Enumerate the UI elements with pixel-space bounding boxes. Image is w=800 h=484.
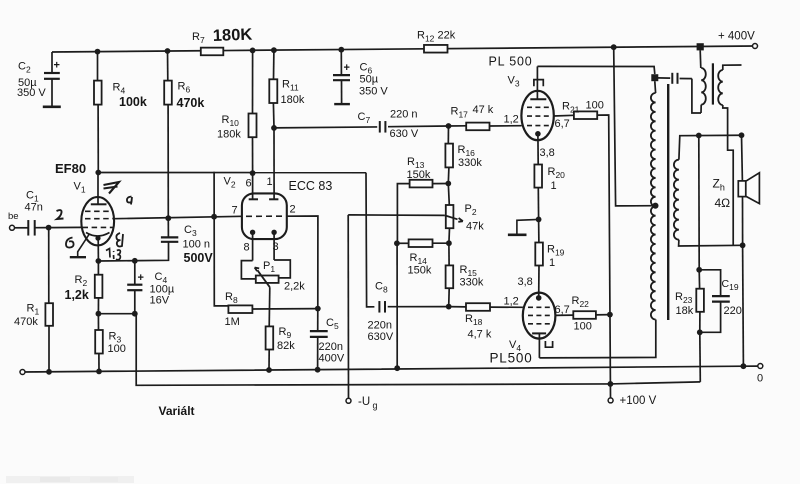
wire secondary bottom: [679, 240, 743, 246]
svg-text:+: +: [54, 60, 60, 72]
tube V3 cathode: [535, 131, 541, 137]
tube V2 cathode pin8: [250, 230, 255, 261]
node primary tap junction: [652, 203, 658, 209]
node V2 pin6 anode junction: [250, 170, 256, 176]
svg-text:4Ω: 4Ω: [715, 196, 731, 210]
label C2 plus: [54, 60, 60, 72]
label V1 pin7 handwritten: [104, 182, 120, 194]
label V3 67: [555, 118, 570, 130]
tube V4 cathode: [536, 295, 542, 301]
capacitor C6: [333, 50, 350, 104]
svg-text:630 V: 630 V: [390, 128, 419, 140]
tube V2 anode pin6: [249, 198, 258, 200]
svg-text:470k: 470k: [14, 316, 38, 328]
svg-text:PL 500: PL 500: [489, 55, 533, 69]
svg-text:3,8: 3,8: [518, 276, 533, 288]
node rail boost square junction: [697, 43, 704, 50]
resistor R22: [573, 311, 596, 319]
label V2 pin6: [246, 178, 252, 190]
svg-text:+100 V: +100 V: [620, 395, 657, 407]
tube V1 EF80 envelope: [81, 197, 114, 245]
tube V1 suppressor to ground: [70, 235, 89, 258]
wire cathode bottom node: [98, 313, 136, 315]
potentiometer P2: [446, 184, 454, 244]
svg-text:630V: 630V: [368, 331, 394, 343]
wire anode drop through to R8: [214, 172, 228, 306]
svg-text:6,7: 6,7: [555, 118, 570, 130]
label R17: [451, 104, 494, 120]
svg-text:100: 100: [108, 343, 126, 355]
label R8: [225, 291, 240, 328]
label R10: [217, 114, 241, 141]
svg-text:180k: 180k: [217, 129, 241, 141]
label R9: [277, 326, 295, 352]
node C7 junction: [271, 125, 277, 131]
svg-text:220n: 220n: [319, 341, 343, 353]
label C7: [358, 109, 419, 141]
label R12: [417, 30, 456, 44]
terminal 0 right: [758, 364, 763, 369]
label -Ug: [358, 396, 378, 411]
wiper P2: [445, 215, 463, 221]
node R2 bottom junction: [96, 311, 102, 317]
wire grid node down to R1: [48, 228, 50, 304]
label +400V: [718, 31, 755, 43]
node gnd-R3: [96, 369, 102, 375]
svg-text:100: 100: [586, 100, 604, 112]
label R6: [177, 81, 205, 111]
label V2: [224, 176, 236, 190]
resistor R7: [201, 48, 224, 56]
core boost transformer: [712, 63, 714, 104]
label C1: [25, 190, 43, 214]
tube V4 envelope: [523, 293, 556, 339]
svg-text:ECC 83: ECC 83: [289, 179, 333, 193]
label R13: [407, 156, 431, 181]
node C7-P2col junction: [446, 123, 452, 129]
label V2 pin2: [290, 204, 296, 216]
label V2 pin1: [267, 176, 273, 188]
svg-text:100k: 100k: [119, 95, 147, 109]
svg-text:400V: 400V: [319, 353, 345, 365]
resistor R11: [269, 50, 277, 128]
capacitor C5: [310, 309, 328, 370]
resistor R10: [249, 50, 257, 173]
wire R22 to column: [596, 314, 610, 316]
svg-text:1M: 1M: [225, 316, 240, 328]
label C6 plus: [344, 62, 350, 74]
wiper P1: [255, 268, 270, 288]
node rail-B+column junction: [611, 44, 617, 50]
resistor R23: [696, 270, 704, 333]
tube V3 envelope: [521, 91, 553, 140]
label R15: [460, 264, 484, 289]
label V4: [509, 339, 521, 353]
label V1: [74, 181, 86, 195]
label R20: [548, 166, 566, 192]
label C2: [17, 61, 46, 100]
label PL500 bottom: [490, 351, 533, 366]
wire -Ug to P2: [348, 214, 445, 217]
label V2 pin8: [244, 242, 250, 254]
node gnd-C5: [315, 367, 321, 373]
wire C7 left: [274, 126, 377, 129]
terminal ground left: [20, 370, 25, 375]
resistor R8: [228, 305, 317, 313]
label R14: [408, 252, 432, 277]
wire pin6 riser: [252, 173, 254, 199]
node gnd-R1: [46, 369, 52, 375]
wire R17 to V3 grid: [490, 125, 522, 127]
tube V3 top cap: [534, 66, 543, 90]
wire cap right down: [692, 79, 701, 113]
wire sec top to R23: [698, 136, 700, 270]
label V1 pin13 handwritten: [106, 249, 120, 260]
node cathode-C4 junction: [132, 258, 138, 264]
tube V4 bottom cap: [539, 338, 552, 358]
wire anode corner down to C8: [366, 173, 374, 307]
svg-text:8: 8: [244, 242, 250, 254]
resistor R15: [446, 243, 454, 306]
label V4 67: [555, 304, 570, 316]
node sec-R23col junction: [696, 133, 702, 139]
tube V3 g1 dash: [527, 125, 550, 127]
inductor boost right coil: [718, 65, 741, 105]
svg-text:150k: 150k: [407, 169, 431, 181]
resistor R2: [95, 261, 103, 314]
node R22 junction: [607, 312, 613, 318]
node R14-P2col junction: [446, 240, 452, 246]
wire B+ column to tap: [614, 47, 656, 206]
node R23 bottom junction: [697, 329, 703, 335]
label R11: [281, 79, 305, 107]
wire pin3 to P1: [274, 260, 290, 278]
resistor R12: [424, 45, 448, 53]
svg-text:47 k: 47 k: [473, 104, 494, 116]
node speaker bottom junction: [740, 242, 746, 248]
resistor R17: [466, 123, 489, 131]
svg-text:180K: 180K: [213, 26, 253, 45]
label V2 pin7: [232, 205, 238, 217]
label P1 value: [284, 281, 305, 293]
resistor R19: [535, 219, 543, 298]
wire C8 right: [388, 306, 449, 308]
ground cathode bar: [508, 219, 539, 234]
node rail-R6 junction: [165, 48, 171, 54]
terminal +400V: [753, 44, 758, 49]
wire V1 cathode down: [97, 238, 99, 261]
terminal -Ug: [346, 398, 351, 403]
label EF80: [55, 161, 86, 176]
label V1 pin8 handwritten: [116, 233, 123, 247]
resistor R13: [397, 180, 448, 244]
label V4 38: [518, 276, 533, 288]
label ECC83: [289, 179, 333, 193]
resistor R20: [534, 165, 542, 220]
svg-text:1,2: 1,2: [504, 296, 519, 308]
label V1 pin9 handwritten: [127, 197, 132, 205]
tube V4 g1 dash: [528, 306, 551, 308]
resistor R6: [164, 51, 172, 218]
label V4 pin12: [504, 296, 519, 308]
node gnd-speaker: [741, 363, 747, 369]
label R19: [547, 244, 565, 270]
tube V4 g3 dash: [528, 323, 551, 325]
wire pin8 to P1: [241, 261, 255, 279]
tube V1 cathode: [86, 233, 110, 241]
wire input to C1: [15, 227, 29, 229]
svg-text:Variált: Variált: [159, 404, 195, 418]
potentiometer P1: [256, 276, 279, 283]
label P2 value: [466, 221, 484, 233]
capacitor C7: [380, 121, 386, 133]
svg-text:82k: 82k: [277, 340, 295, 352]
label V3 38: [540, 147, 555, 159]
wire V4 screen to R22: [555, 314, 573, 316]
svg-text:220: 220: [724, 305, 742, 317]
tube V2 anode pin1: [269, 198, 278, 200]
label be: [8, 211, 19, 222]
tube V3 anode: [530, 91, 546, 99]
svg-text:1,2k: 1,2k: [65, 288, 89, 302]
svg-text:1: 1: [267, 176, 273, 188]
wire bias column to ground: [396, 243, 398, 368]
wire V4 anode line: [539, 320, 655, 358]
node C4 bottom junction: [132, 311, 138, 317]
wire boost right coil down: [723, 105, 733, 245]
wire V1 anode node right: [95, 170, 366, 176]
node rail-R10 junction: [250, 48, 256, 54]
node rail-C6 junction: [338, 47, 344, 53]
label V1 pin2 handwritten: [57, 210, 64, 219]
tube V1 g2 dash: [85, 218, 114, 220]
node R8-C5 junction: [315, 306, 321, 312]
label Varialt: [159, 404, 195, 418]
label R2: [65, 274, 89, 302]
svg-text:500V: 500V: [184, 251, 214, 265]
inductor boost left coil: [700, 50, 706, 113]
wire secondary top: [679, 135, 742, 159]
svg-text:6: 6: [246, 178, 252, 190]
svg-text:330k: 330k: [460, 277, 484, 289]
label P1: [263, 260, 275, 274]
svg-text:+ 400V: + 400V: [718, 31, 755, 43]
wire to R17: [449, 125, 467, 127]
resistor R4: [94, 52, 102, 173]
tube V2 grid dash: [246, 215, 283, 217]
tube V1 g1 dash: [83, 226, 114, 228]
node screen-anode-drop junction: [211, 214, 217, 220]
svg-text:7: 7: [232, 205, 238, 217]
label R7 value 180K handwritten: [213, 26, 253, 45]
tube V2 cathode pin3: [271, 230, 276, 260]
svg-text:16V: 16V: [150, 295, 170, 307]
label R16: [458, 144, 483, 169]
svg-text:be: be: [8, 211, 19, 222]
resistor R1: [45, 303, 53, 372]
node cathode junction: [96, 258, 102, 264]
wire R21 to screens column: [597, 115, 610, 398]
wire V2 pin2 grid to C5 column: [287, 216, 318, 309]
svg-text:0: 0: [757, 373, 763, 385]
svg-text:2,2k: 2,2k: [284, 281, 305, 293]
tube V3 g2 dash: [527, 115, 550, 117]
wire pin1 riser: [273, 128, 275, 199]
svg-text:330k: 330k: [458, 157, 482, 169]
label C5: [319, 317, 345, 365]
resistor R16: [445, 126, 453, 184]
capacitor C8: [379, 301, 385, 313]
label V1 pin6 handwritten: [66, 238, 74, 248]
label C6: [359, 62, 388, 98]
node C19 branch junction: [696, 267, 702, 273]
speaker Zh: [738, 173, 759, 204]
svg-text:350 V: 350 V: [359, 86, 388, 98]
label R23: [675, 291, 694, 317]
tube V4 g2 dash: [528, 314, 552, 316]
svg-text:-U: -U: [358, 396, 370, 408]
node cathode ground junction: [536, 217, 542, 223]
label R1: [14, 303, 39, 329]
resistor R18: [449, 303, 523, 311]
tube V3 g3 dash: [527, 106, 550, 108]
svg-text:1,2: 1,2: [504, 114, 519, 126]
wire +100V feed from cathode node: [136, 314, 700, 386]
svg-text:1: 1: [549, 257, 555, 269]
svg-text:3: 3: [273, 241, 279, 253]
tube V2 ECC83 envelope: [242, 193, 287, 239]
label R22: [572, 295, 592, 333]
node rail-R11 junction: [271, 47, 277, 53]
label Zh: [713, 177, 731, 211]
node sec-speaker junction: [739, 132, 745, 138]
resistor R21: [574, 111, 597, 119]
svg-text:4,7 k: 4,7 k: [468, 329, 492, 341]
svg-text:18k: 18k: [676, 305, 694, 317]
terminal input be: [10, 225, 15, 230]
capacitor C4: [127, 261, 142, 314]
svg-text:47k: 47k: [466, 221, 484, 233]
capacitor C1: [28, 220, 34, 236]
resistor R14: [394, 239, 449, 247]
svg-text:2: 2: [290, 204, 296, 216]
svg-text:220 n: 220 n: [390, 109, 418, 121]
node gnd-R1314col: [394, 365, 400, 371]
tube V1 g3 dash: [85, 210, 112, 212]
node +100V line junction: [608, 381, 614, 387]
node primary top square junction: [651, 74, 658, 81]
svg-text:50µ: 50µ: [360, 74, 379, 86]
label +100V: [620, 395, 657, 407]
label 0: [757, 373, 763, 385]
label V3 pin12: [504, 114, 519, 126]
svg-text:+: +: [344, 62, 350, 74]
label C8: [368, 281, 394, 344]
label R18: [465, 313, 492, 341]
svg-text:100 n: 100 n: [183, 239, 211, 251]
node screen-C3 junction: [165, 215, 171, 221]
svg-text:+: +: [138, 272, 144, 284]
capacitor boost cap: [657, 73, 692, 84]
wire V1 screen line: [114, 216, 242, 218]
capacitor C3: [98, 218, 178, 261]
wire V3 screen to R21: [554, 114, 574, 117]
capacitor C2: [44, 73, 60, 79]
label R21: [562, 100, 604, 115]
capacitor C19: [699, 270, 730, 333]
node C8-R18 junction: [446, 304, 452, 310]
tube V4 anode: [532, 333, 546, 338]
label R3: [108, 331, 126, 356]
svg-text:350 V: 350 V: [17, 87, 46, 99]
svg-text:150k: 150k: [408, 265, 432, 277]
scan noise strip: [6, 476, 134, 483]
svg-text:220n: 220n: [368, 320, 392, 332]
label P2: [465, 203, 477, 217]
svg-text:47n: 47n: [25, 202, 43, 214]
label C3: [183, 224, 214, 265]
label V3: [508, 75, 520, 89]
inductor primary: [651, 93, 656, 320]
svg-text:1: 1: [551, 180, 557, 192]
terminal +100V: [608, 398, 613, 403]
wire R23 node to +100 line: [699, 332, 702, 382]
wire C7 right: [388, 125, 449, 128]
label PL500 top: [489, 55, 533, 69]
label V2 pin3: [273, 241, 279, 253]
svg-text:EF80: EF80: [55, 161, 86, 176]
svg-text:180k: 180k: [281, 94, 305, 106]
wire V3 cathode down: [537, 134, 539, 165]
node V1 grid junction: [46, 225, 52, 231]
wire ground 0 line: [23, 366, 759, 372]
svg-text:100: 100: [574, 321, 592, 333]
svg-text:6,7: 6,7: [555, 304, 570, 316]
svg-text:PL500: PL500: [490, 351, 533, 366]
wire -Ug column: [347, 215, 349, 398]
svg-text:22k: 22k: [438, 30, 456, 42]
wire C1 to grid node: [35, 227, 49, 229]
wire grid to V1: [49, 226, 82, 228]
wire C2 column: [51, 52, 53, 107]
wire square to primary: [654, 81, 657, 93]
label R7: [192, 31, 205, 45]
svg-text:470k: 470k: [177, 96, 205, 110]
label C4: [150, 271, 175, 307]
wire speaker column: [742, 135, 744, 366]
node R13-P2col junction: [445, 181, 451, 187]
core transformer: [667, 84, 669, 320]
svg-text:3,8: 3,8: [540, 147, 555, 159]
node gnd-R9: [266, 367, 272, 373]
wire V3 anode line: [537, 66, 654, 74]
label R4: [113, 82, 147, 110]
node rail-R4 junction: [95, 49, 101, 55]
svg-text:g: g: [373, 401, 378, 411]
wire B+ top rail: [52, 46, 755, 52]
ground C2: [43, 106, 61, 109]
label C4 plus: [138, 272, 144, 284]
label C19: [722, 278, 742, 317]
resistor R9: [266, 287, 274, 370]
tube V1 anode: [91, 173, 107, 205]
resistor R3: [95, 314, 103, 372]
inductor secondary: [674, 160, 679, 240]
